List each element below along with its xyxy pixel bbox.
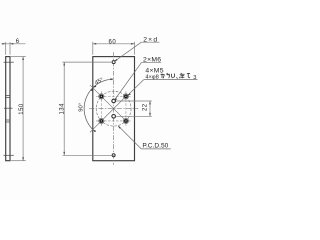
dimension 6 bbox=[2, 42, 26, 55]
bottom hole 2xd bbox=[112, 154, 115, 157]
svg-text:22: 22 bbox=[142, 103, 148, 111]
hole row center lines bbox=[96, 91, 131, 126]
vertical center line bbox=[113, 52, 115, 165]
angle arc 45/90 bbox=[84, 79, 114, 129]
svg-text:150: 150 bbox=[19, 103, 25, 115]
bolt circle P.C.D.50 dashed bbox=[96, 91, 131, 126]
front view plate body bbox=[93, 57, 135, 161]
dimension 22 bbox=[116, 101, 152, 116]
M6 hole lower bbox=[112, 115, 116, 119]
horizontal center line bbox=[89, 108, 138, 110]
svg-text:6: 6 bbox=[16, 39, 20, 45]
svg-text:60: 60 bbox=[109, 40, 117, 46]
dimension 134 bbox=[63, 62, 116, 155]
svg-text:134: 134 bbox=[60, 103, 66, 115]
dimension 60 bbox=[93, 42, 135, 55]
side view plate body bbox=[6, 57, 10, 161]
svg-text:45°: 45° bbox=[94, 77, 104, 86]
M6 hole upper bbox=[112, 99, 116, 103]
svg-text:4×M5: 4×M5 bbox=[145, 67, 163, 74]
top hole 2xd bbox=[112, 61, 115, 64]
pseudo CJK glyphs bbox=[161, 73, 191, 78]
counterbore holes 4x bbox=[99, 94, 129, 124]
side view hole lines bbox=[4, 62, 14, 155]
dimension 150 bbox=[11, 57, 26, 161]
svg-text:90°: 90° bbox=[78, 103, 84, 112]
diagonal radial lines between opposite holes bbox=[90, 85, 126, 132]
